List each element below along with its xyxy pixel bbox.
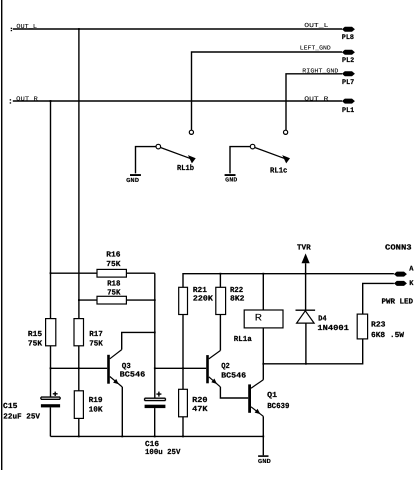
wire R16 right: [126, 272, 154, 274]
port OUT_L: [11, 28, 12, 31]
wire Q1 collector node to R23: [263, 339, 362, 364]
wire R16 left: [51, 272, 98, 274]
wire RIGHT_GND: [286, 74, 342, 130]
value label R17: [89, 330, 103, 349]
svg-text:8K2: 8K2: [230, 294, 245, 303]
value label R19: [89, 396, 103, 415]
junction base R15: [50, 367, 52, 369]
svg-text:75K: 75K: [89, 340, 103, 349]
wire OUT_L column vertical: [78, 29, 80, 319]
value label R20: [192, 396, 208, 414]
value label R18: [107, 280, 121, 298]
junction rail Q3 emitter: [121, 436, 123, 438]
junction rail TVR: [305, 273, 307, 275]
wire Q2 base: [155, 367, 206, 369]
junction D4 anode: [305, 363, 307, 365]
svg-text:22uF 25V: 22uF 25V: [3, 412, 40, 421]
value label R21: [193, 286, 213, 304]
junction R16 left: [50, 272, 52, 274]
wire R23 top to K: [363, 283, 394, 314]
svg-text:47K: 47K: [192, 405, 208, 414]
junction rail C16: [154, 436, 156, 438]
relay RL1c pivot: [250, 144, 255, 149]
junction rail R19: [78, 436, 80, 438]
svg-text:LEFT_GND: LEFT_GND: [300, 45, 331, 52]
value label R15: [28, 330, 43, 349]
svg-text:R22: R22: [230, 286, 244, 295]
resistor R16: [97, 269, 126, 277]
svg-text:OUT_L: OUT_L: [304, 22, 329, 29]
svg-text:C16: C16: [145, 440, 159, 449]
junction feedback R18: [154, 299, 156, 301]
label Q2: [221, 362, 246, 380]
wire R17 bottom to R19: [78, 346, 80, 391]
svg-text:R: R: [255, 313, 262, 324]
svg-text:GND: GND: [258, 458, 271, 465]
resistor R18: [97, 296, 126, 304]
wire R18 right: [126, 299, 154, 301]
relay contact RL1c top terminal: [284, 130, 288, 134]
wire R22 bottom: [219, 315, 221, 351]
svg-text:R19: R19: [89, 396, 103, 405]
transistor Q3: [107, 350, 122, 387]
svg-text:BC546: BC546: [120, 371, 146, 380]
junction rail coil: [262, 273, 264, 275]
wire TVR to D4: [305, 274, 307, 311]
port OUT_R: [10, 99, 11, 103]
wire R21 bottom to R20: [182, 315, 184, 390]
wire Q3 collector: [122, 332, 155, 349]
resistor R17: [74, 319, 84, 346]
svg-text:CONN3: CONN3: [385, 243, 412, 252]
svg-text:PL8: PL8: [342, 34, 354, 42]
relay contact RL1b top terminal: [189, 130, 193, 134]
value label C16: [145, 440, 181, 457]
svg-text:BC639: BC639: [267, 402, 290, 411]
junction feedback Q2 base: [154, 367, 156, 369]
junction OUT_L column: [78, 28, 80, 30]
junction base R17: [78, 367, 80, 369]
ground RL1c: [225, 174, 238, 184]
svg-text:R17: R17: [89, 330, 103, 339]
svg-text:TVR: TVR: [297, 244, 311, 253]
svg-text:RL1c: RL1c: [270, 166, 288, 175]
junction feedback Q3 collector: [154, 332, 156, 334]
wire Q3 base: [51, 367, 108, 369]
wire power rail: [183, 274, 394, 288]
svg-text:BC546: BC546: [221, 371, 246, 380]
svg-text:OUT_R: OUT_R: [304, 95, 329, 102]
svg-text:D4: D4: [318, 314, 327, 323]
svg-text:R20: R20: [192, 396, 208, 405]
relay RL1b pivot: [156, 144, 161, 149]
value label R16: [106, 250, 121, 269]
wire R20 bottom: [182, 417, 184, 437]
relay coil RL1a: [244, 274, 283, 328]
connector pin K: [394, 280, 414, 288]
power arrow TVR: [297, 244, 311, 274]
capacitor C15: [41, 392, 60, 408]
label Q3: [120, 362, 146, 380]
svg-text:GND: GND: [126, 177, 139, 184]
svg-text:R23: R23: [371, 320, 386, 329]
svg-text:C15: C15: [3, 402, 18, 411]
ground Q1: [258, 455, 271, 465]
wire R22 top: [219, 274, 221, 288]
connector PL2: [342, 50, 355, 65]
wire C16 bottom: [154, 408, 156, 436]
wire Q3 emitter: [121, 387, 123, 436]
svg-text:75K: 75K: [107, 288, 121, 297]
svg-text:GND: GND: [225, 177, 237, 184]
value label D4: [317, 314, 349, 333]
capacitor C16: [145, 392, 166, 409]
transistor Q1: [248, 380, 263, 417]
connector PL7: [342, 71, 355, 87]
svg-text:Q2: Q2: [221, 362, 230, 371]
svg-text:6K8 .5W: 6K8 .5W: [371, 331, 404, 340]
wire OUT_L: [13, 28, 342, 30]
wire R18 left: [79, 299, 97, 301]
svg-text:75K: 75K: [28, 340, 43, 349]
wire Q1 emitter to ground: [262, 416, 264, 455]
value label C15: [3, 402, 40, 421]
connector PL8: [342, 27, 355, 43]
svg-text:PWR LED: PWR LED: [382, 298, 414, 307]
wire coil bottom to Q1 collector: [262, 328, 264, 380]
wire R15 bottom to C15: [50, 346, 52, 397]
diode D4: [296, 310, 316, 364]
svg-text:PL7: PL7: [342, 79, 354, 87]
relay RL1b lever: [161, 148, 196, 164]
wire C15 bottom: [49, 407, 51, 436]
svg-text:Q1: Q1: [267, 391, 277, 400]
wire relay RL1b common: [136, 147, 157, 174]
svg-text:RL1a: RL1a: [234, 335, 252, 344]
junction rail R20: [182, 436, 184, 438]
junction rail R22: [220, 273, 222, 275]
ground RL1b: [126, 174, 141, 184]
connector PL1: [342, 99, 355, 115]
wire ground rail: [50, 435, 263, 437]
wire feedback column vertical: [154, 273, 156, 398]
svg-text:R21: R21: [193, 286, 207, 295]
wire relay RL1c common: [230, 147, 250, 174]
resistor R19: [74, 391, 83, 419]
wire OUT_R: [13, 100, 342, 102]
svg-text:PL2: PL2: [342, 57, 354, 65]
svg-text:RL1b: RL1b: [177, 164, 194, 173]
label Q1: [267, 391, 290, 411]
junction OUT_R column: [50, 100, 52, 102]
resistor R15: [46, 319, 56, 346]
value label R22: [230, 286, 245, 304]
junction R21 base wire: [182, 367, 184, 369]
svg-text:220K: 220K: [193, 294, 213, 303]
svg-text:10K: 10K: [89, 406, 103, 415]
svg-text:PL1: PL1: [342, 107, 354, 115]
resistor R22: [216, 287, 226, 314]
transistor Q2: [206, 351, 220, 387]
svg-text:1N4001: 1N4001: [317, 324, 349, 333]
svg-text:R16: R16: [106, 250, 121, 259]
resistor R20: [179, 389, 188, 417]
svg-text:R18: R18: [107, 280, 121, 289]
svg-text:75K: 75K: [106, 260, 121, 269]
svg-text:R15: R15: [28, 330, 43, 339]
wire Q2 emitter to Q1 base: [220, 387, 248, 398]
junction Q1 collector node: [262, 363, 264, 365]
resistor R23: [357, 314, 367, 339]
wire OUT_R column vertical: [50, 101, 52, 319]
junction R18 left: [78, 299, 80, 301]
wire R19 bottom: [78, 418, 80, 436]
svg-text:Q3: Q3: [122, 362, 131, 371]
value label R23: [371, 320, 404, 340]
junction rail Q1 emitter: [262, 436, 264, 438]
connector pin A: [394, 266, 414, 277]
svg-text:100u 25V: 100u 25V: [145, 448, 181, 457]
resistor R21: [179, 287, 188, 314]
wire LEFT_GND: [192, 52, 343, 130]
relay RL1c lever: [255, 148, 290, 164]
